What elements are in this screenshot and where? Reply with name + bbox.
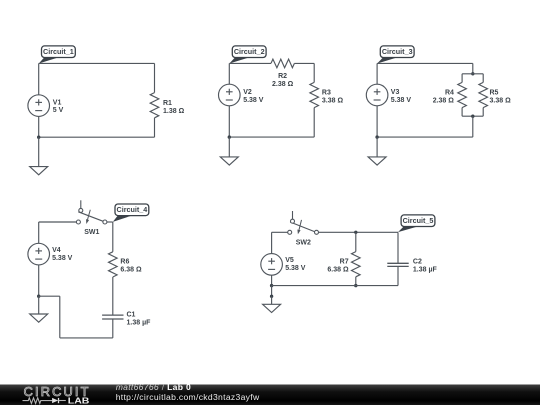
wire left-lower c2 [228,106,230,137]
wire V5 down c5 [271,275,273,285]
wire left-lower c1 [38,116,40,137]
node junction c3 [375,135,378,138]
wire left-upper c1 [38,63,40,94]
resistor R4 [458,82,467,107]
wire left down to V4 [38,222,40,243]
svg-text:V4: V4 [52,247,61,254]
svg-text:LAB: LAB [68,396,90,405]
node bottom of parallel c3 [471,115,474,118]
wire top c1 [39,62,155,64]
ground c5 [263,304,281,312]
wire bottom drop c3 [472,116,474,137]
wire left down to V5 [271,232,273,253]
svg-text:R4: R4 [445,89,454,96]
svg-text:6.38 Ω: 6.38 Ω [327,267,349,274]
resistor R1 [150,93,159,118]
node R7 bottom c5 [354,284,357,287]
voltage source V1 [28,95,50,117]
svg-text:1.38 µF: 1.38 µF [413,267,438,274]
wire R6 up c4 [112,222,114,252]
svg-text:R5: R5 [490,89,499,96]
capacitor C1 [102,314,123,316]
svg-text:R2: R2 [278,73,287,80]
svg-text:3.38 Ω: 3.38 Ω [490,97,512,104]
svg-text:SW1: SW1 [84,229,99,236]
capacitor C2 [387,262,408,264]
wire R7 lower c5 [355,277,357,286]
wire ground stem c3 [376,137,378,157]
resistor R5 [479,82,488,107]
wire bottom bar c3 [462,115,483,117]
wire branch down c4 [59,296,61,338]
wire bottom c4 [60,337,113,339]
wire switch to right c5 [319,231,399,233]
voltage source V3 [366,84,388,106]
svg-text:Circuit_4: Circuit_4 [117,205,148,214]
wire R7 upper c5 [355,232,357,251]
ground c1 [30,167,48,175]
wire top drop c3 [472,63,474,73]
wire switch to node c4 [107,221,113,223]
wire right-lower c1 [154,118,156,137]
footer bar [0,385,540,405]
wire left-upper c2 [228,63,230,84]
wire ground stem c2 [228,137,230,157]
voltage source V4 [28,243,50,265]
wire to ground node c5 [271,286,273,297]
svg-text:C2: C2 [413,259,422,266]
wire ground stem c4 [38,296,40,314]
wire top c3 [377,62,473,64]
label Circuit_5 [398,226,418,232]
svg-text:Circuit_1: Circuit_1 [43,47,74,56]
svg-text:V5: V5 [285,257,294,264]
svg-text:1.38 µF: 1.38 µF [127,319,152,326]
wire bottom c5 [272,285,398,287]
wire left rise c3 [461,108,463,117]
svg-text:Circuit_2: Circuit_2 [234,47,265,56]
switch SW2 [292,211,294,219]
wire ground stem c1 [38,137,40,166]
node R7 top c5 [354,231,357,234]
resistor R3 [310,82,319,107]
node junction c5 [270,284,273,287]
wire up to C1 [112,319,114,338]
resistor R6 [109,252,118,277]
label Circuit_4 [113,215,132,222]
svg-text:R1: R1 [163,100,172,107]
wire down to C2 [397,232,399,263]
wire top-right c2 [294,62,314,64]
ground c4 [30,314,48,322]
label Circuit_3 [377,57,397,64]
wire branch right c4 [39,295,60,297]
wire left drop c3 [461,74,463,83]
svg-text:2.38 Ω: 2.38 Ω [272,81,294,88]
node junction c4 [37,295,40,298]
svg-text:V3: V3 [391,89,400,96]
wire V4 down c4 [38,265,40,296]
wire right-upper c1 [154,63,156,92]
switch SW1 [80,200,82,208]
ground c3 [368,157,386,165]
wire right drop c3 [482,74,484,83]
svg-text:R6: R6 [120,259,129,266]
svg-text:R3: R3 [322,89,331,96]
svg-text:Circuit_3: Circuit_3 [382,47,413,56]
label Circuit_2 [229,57,249,64]
svg-text:matt66766 / Lab 0: matt66766 / Lab 0 [116,382,191,392]
svg-text:1.38 Ω: 1.38 Ω [163,108,185,115]
svg-text:http://circuitlab.com/ckd3ntaz: http://circuitlab.com/ckd3ntaz3ayfw [116,392,260,402]
svg-text:V2: V2 [243,89,252,96]
wire C1 to R6 [112,277,114,315]
wire right rise c3 [482,108,484,117]
svg-text:C1: C1 [127,311,136,318]
svg-text:V1: V1 [53,99,62,106]
wire top bar c3 [462,73,483,75]
svg-text:Circuit_5: Circuit_5 [403,216,434,225]
svg-text:6.38 Ω: 6.38 Ω [120,267,142,274]
svg-text:5.38 V: 5.38 V [391,97,412,104]
wire bottom c2 [229,136,314,138]
wire ground stem c5 [271,296,273,304]
voltage source V5 [261,254,283,276]
svg-text:2.38 Ω: 2.38 Ω [433,97,455,104]
svg-text:3.38 Ω: 3.38 Ω [322,97,344,104]
node junction c1 [37,136,40,139]
svg-text:R7: R7 [340,259,349,266]
wire bottom c3 [377,136,473,138]
wire bottom c1 [39,136,155,138]
svg-text:5.38 V: 5.38 V [52,255,73,262]
svg-text:5.38 V: 5.38 V [243,97,264,104]
resistor R7 [352,252,361,277]
wire top-left c2 [229,62,271,64]
wire switch to left c4 [39,221,77,223]
wire switch to left c5 [272,231,288,233]
wire left-lower c3 [376,106,378,137]
wire left-upper c3 [376,63,378,84]
node top of parallel c3 [471,72,474,75]
voltage source V2 [219,84,241,106]
logo resistor-diode glyph [23,398,53,404]
node junction c2 [228,135,231,138]
wire right-lower c2 [313,108,315,138]
svg-text:5.38 V: 5.38 V [285,265,306,272]
svg-text:SW2: SW2 [296,239,311,246]
node ground attach c5 [270,295,273,298]
wire C2 lower c5 [397,266,399,285]
wire right-upper c2 [313,63,315,82]
resistor R2 [271,59,294,68]
ground c2 [220,157,238,165]
label Circuit_1 [39,57,59,64]
svg-text:5 V: 5 V [53,107,64,114]
